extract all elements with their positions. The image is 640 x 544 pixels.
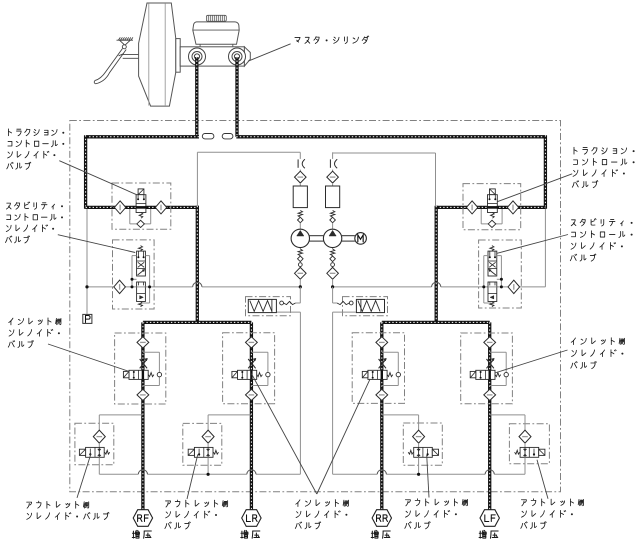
solenoid actuator bbox=[138, 189, 144, 195]
bypass with check ball bbox=[251, 351, 268, 353]
outlet filter diamond bbox=[93, 430, 105, 443]
master cylinder port (secondary) bbox=[229, 48, 246, 65]
inlet filter diamond top bbox=[484, 337, 496, 348]
line hop over right circuit line bbox=[432, 282, 441, 287]
valve body bbox=[414, 447, 433, 457]
pipe: right suction line bbox=[333, 286, 432, 288]
reservoir cap (ribbed) bbox=[206, 15, 226, 21]
check valve (traction ctrl, right filter) bbox=[155, 201, 166, 214]
traction control valve housing left bbox=[112, 183, 171, 229]
brake line: through right TC valve bbox=[436, 206, 545, 209]
solenoid bbox=[470, 371, 476, 377]
pressure relief check diamond bbox=[114, 280, 126, 293]
variable orifice X-arrow bbox=[379, 359, 386, 368]
solenoid bbox=[188, 449, 194, 455]
hop over LF column bbox=[485, 470, 494, 475]
pointer bbox=[537, 460, 548, 499]
pipe union fitting right bbox=[222, 134, 233, 139]
pointer bbox=[498, 174, 573, 202]
label traction control valve right bbox=[572, 147, 634, 187]
valve body bbox=[194, 447, 213, 457]
inlet filter diamond top bbox=[376, 337, 388, 348]
label pressure-increase LR bbox=[241, 530, 260, 538]
label outlet valve RR bbox=[405, 499, 468, 529]
brake line: left manifold horizontal bbox=[143, 321, 252, 324]
variable orifice X-arrow bbox=[487, 359, 494, 368]
inlet valve housing LR bbox=[223, 333, 275, 404]
brake line: top left horizontal bbox=[86, 135, 199, 138]
hop over LR column bbox=[247, 470, 256, 475]
pointer V right arm bbox=[317, 379, 370, 494]
solenoid bbox=[123, 371, 129, 377]
motor shaft bbox=[342, 235, 355, 237]
inlet filter diamond bottom bbox=[246, 389, 258, 400]
reservoir bbox=[193, 22, 239, 47]
pressure relief check diamond bbox=[508, 280, 520, 293]
label master cylinder bbox=[295, 36, 369, 44]
booster flange bbox=[176, 39, 180, 73]
pump right bbox=[323, 229, 341, 247]
pipe: left return riser bbox=[299, 312, 301, 474]
pointer bbox=[58, 235, 135, 253]
booster pushrod bbox=[122, 55, 139, 59]
pipe: MC tap to left pump column bbox=[197, 151, 300, 153]
pointer bbox=[427, 455, 429, 498]
wheel line RF bbox=[141, 322, 144, 509]
brake line: right vertical bbox=[544, 135, 547, 209]
filter bbox=[327, 171, 339, 183]
valve body bbox=[368, 370, 387, 379]
pointer to master cylinder bbox=[248, 44, 291, 61]
wheel node RR bbox=[372, 510, 391, 527]
pipe: left suction drop to accumulator bbox=[299, 287, 301, 303]
check valve (traction ctrl right, left filter) bbox=[466, 201, 477, 214]
pointer bbox=[48, 344, 129, 371]
solenoid bbox=[362, 371, 368, 377]
accumulator spring chamber bbox=[356, 299, 384, 312]
label pressure-increase LF bbox=[479, 530, 498, 538]
bypass line with check valve bbox=[480, 209, 482, 224]
pump left bbox=[291, 229, 309, 247]
springs top/bottom bbox=[139, 246, 143, 251]
traction control valve housing right bbox=[463, 184, 521, 230]
outlet valve housing LR bbox=[183, 423, 222, 465]
outlet return stub bbox=[207, 457, 209, 474]
pump shaft bbox=[310, 235, 324, 237]
brake line: left circuit down to inlets bbox=[196, 206, 199, 323]
inlet filter diamond top bbox=[246, 337, 258, 348]
outlet feed line bbox=[99, 414, 143, 416]
return spring bbox=[491, 213, 495, 219]
solenoid bbox=[79, 449, 85, 455]
pipe union fitting left bbox=[202, 134, 214, 139]
pilot rails bbox=[500, 256, 502, 287]
piston ball + spring bbox=[280, 301, 284, 305]
hydraulic unit boundary (chain line) bbox=[70, 121, 561, 492]
brake line: right circuit down to inlets bbox=[435, 206, 438, 323]
inlet filter diamond bottom bbox=[484, 389, 496, 400]
motor M bbox=[355, 233, 367, 245]
wheel line LF bbox=[488, 322, 491, 509]
valve body bbox=[520, 447, 539, 457]
springs top/bottom bbox=[490, 246, 494, 251]
spring + check below pump bbox=[299, 248, 301, 249]
valve body 2-position bbox=[136, 195, 146, 213]
pulsation damper bbox=[299, 152, 301, 159]
piston ball + spring bbox=[349, 301, 353, 305]
solenoid bbox=[232, 371, 238, 377]
brake pedal mount (hatched) bbox=[117, 37, 134, 48]
spring bbox=[257, 373, 263, 377]
outlet filter diamond bbox=[519, 430, 531, 443]
hop over RF column bbox=[138, 470, 147, 475]
stability control valve housing left bbox=[113, 240, 155, 309]
label pressure-increase RR bbox=[371, 530, 390, 538]
outlet feed line bbox=[208, 414, 251, 416]
pointer V left arm bbox=[252, 374, 317, 494]
outlet valve housing LF bbox=[509, 424, 549, 464]
spring bbox=[148, 373, 154, 377]
brake pedal arm bbox=[94, 49, 126, 84]
outlet return stub bbox=[524, 457, 526, 474]
label stability control valve left bbox=[5, 202, 63, 243]
junction pump suction left bbox=[299, 285, 302, 288]
hop over RR column bbox=[377, 470, 386, 475]
junction bbox=[85, 285, 88, 288]
spring bbox=[213, 450, 218, 454]
outlet filter diamond bbox=[202, 430, 214, 443]
outlet valve housing RR bbox=[403, 423, 442, 465]
wheel line LR bbox=[250, 322, 253, 509]
pointer bbox=[497, 235, 568, 254]
bypass with check ball bbox=[490, 351, 507, 353]
brake line: right MC port down bbox=[235, 57, 238, 137]
filter bbox=[295, 171, 307, 183]
pipe: left tap vertical with P sensor bbox=[86, 209, 88, 314]
wheel node LR bbox=[242, 510, 261, 527]
pilot rails bbox=[131, 256, 133, 287]
valve body bbox=[86, 447, 105, 457]
low-pressure accumulator housing bbox=[246, 297, 291, 316]
wheel line RR bbox=[380, 322, 383, 509]
bypass with check ball bbox=[143, 351, 160, 353]
label outlet valve RF bbox=[27, 501, 109, 519]
pipe: right return riser bbox=[332, 312, 334, 474]
inlet valve housing RF bbox=[115, 333, 166, 404]
pulsation damper bbox=[332, 152, 334, 159]
stability control valve housing right bbox=[479, 240, 522, 308]
pressure sensor P bbox=[83, 314, 92, 323]
label inlet valves center bbox=[295, 500, 348, 529]
junction RR outlet return bbox=[417, 473, 420, 476]
brake line: through left TC valve bbox=[86, 206, 199, 209]
pipe: left return line bbox=[99, 473, 138, 475]
pointer bbox=[77, 454, 91, 498]
label pressure-increase RF bbox=[132, 530, 151, 538]
pipe: right tap vertical bbox=[544, 209, 546, 287]
solenoid bbox=[432, 449, 438, 455]
valve body lower group bbox=[137, 282, 146, 302]
label stability control valve right bbox=[570, 219, 632, 262]
wheel node RF bbox=[133, 510, 152, 527]
valve body lower group bbox=[488, 282, 497, 302]
variable orifice X-arrow bbox=[248, 359, 255, 368]
label traction control valve left bbox=[7, 129, 65, 169]
check valve (traction ctrl, right filter) bbox=[507, 201, 518, 214]
pointer bbox=[187, 454, 198, 499]
outlet feed line bbox=[490, 414, 525, 416]
variable orifice X-arrow bbox=[140, 359, 147, 368]
pipe: left suction line bbox=[87, 286, 193, 288]
outlet valve housing RF bbox=[75, 423, 114, 465]
return spring bbox=[139, 213, 143, 219]
junction LR outlet return bbox=[207, 473, 210, 476]
valve body upper group bbox=[137, 251, 146, 276]
valve body 2-position bbox=[488, 195, 498, 213]
outlet filter diamond bbox=[413, 430, 425, 443]
bypass line with check valve bbox=[129, 209, 131, 224]
valve body bbox=[476, 370, 495, 379]
pipe: right suction drop to accumulator bbox=[332, 287, 334, 303]
outlet feed line bbox=[382, 414, 419, 416]
pointer bbox=[59, 161, 136, 195]
valve body bbox=[129, 370, 148, 379]
inlet filter diamond top bbox=[137, 337, 149, 348]
solenoid bbox=[539, 449, 545, 455]
spring bbox=[408, 450, 413, 454]
suction filter bbox=[327, 267, 339, 279]
label outlet valve LF bbox=[521, 499, 584, 529]
suction filter bbox=[295, 267, 307, 279]
master cylinder port (primary) bbox=[189, 48, 206, 65]
wheel node LF bbox=[480, 510, 499, 527]
vacuum booster bbox=[139, 3, 176, 106]
valve body upper group bbox=[488, 251, 497, 276]
brake line: top right horizontal bbox=[236, 135, 545, 138]
chamber bbox=[293, 186, 307, 208]
spring bbox=[387, 373, 393, 377]
inlet valve housing RR bbox=[352, 333, 404, 404]
inlet filter diamond bottom bbox=[137, 389, 149, 400]
spring bbox=[495, 373, 501, 377]
valve body bbox=[238, 370, 257, 379]
pointer bbox=[495, 350, 568, 373]
check valve (traction ctrl left, left filter) bbox=[114, 201, 125, 214]
pipe: MC tap to right pump column bbox=[333, 152, 436, 154]
inlet valve housing LF bbox=[461, 333, 513, 404]
spring bbox=[515, 450, 520, 454]
label inlet valve left bbox=[8, 318, 61, 348]
inlet filter diamond bottom bbox=[376, 389, 388, 400]
spring bbox=[105, 450, 110, 454]
brake line: left MC port down bbox=[195, 57, 198, 137]
outlet return stub bbox=[98, 457, 100, 474]
solenoid actuator bbox=[490, 189, 496, 195]
junction pump suction right bbox=[331, 285, 334, 288]
label outlet valve LR bbox=[165, 500, 228, 529]
brake line: left vertical bbox=[84, 135, 87, 209]
spring + check bbox=[298, 211, 302, 218]
accumulator spring chamber bbox=[248, 299, 276, 312]
label inlet valve right bbox=[571, 338, 625, 369]
pipe: right return line bbox=[333, 473, 378, 475]
line hop over left circuit line bbox=[193, 282, 202, 287]
low-pressure accumulator housing bbox=[343, 297, 388, 316]
outlet return stub bbox=[418, 457, 420, 474]
master cylinder body bbox=[180, 47, 250, 66]
brake line: right manifold horizontal bbox=[382, 321, 490, 324]
spring + check bbox=[330, 211, 334, 218]
bypass with check ball bbox=[382, 351, 399, 353]
chamber bbox=[326, 186, 340, 208]
spring + check below pump bbox=[332, 248, 334, 249]
